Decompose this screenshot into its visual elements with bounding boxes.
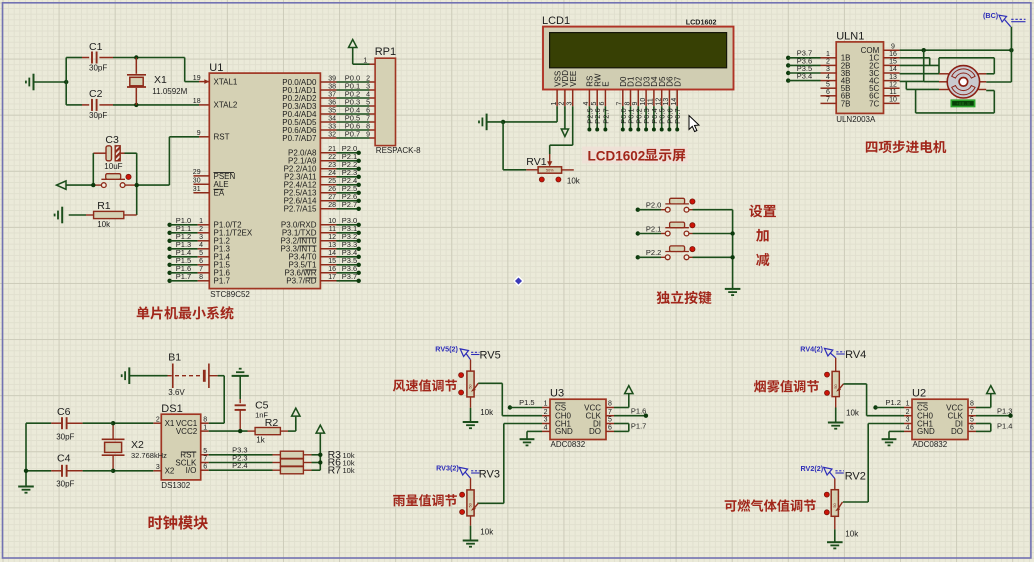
- svg-text:ULN1: ULN1: [836, 31, 864, 43]
- svg-text:14: 14: [328, 250, 336, 257]
- svg-text:1: 1: [551, 102, 558, 106]
- svg-text:C1: C1: [89, 41, 103, 53]
- svg-text:14: 14: [889, 66, 897, 73]
- svg-text:8: 8: [624, 102, 631, 106]
- svg-text:13: 13: [889, 74, 897, 81]
- svg-text:10k: 10k: [97, 220, 111, 229]
- svg-text:P2.2: P2.2: [646, 248, 661, 257]
- svg-text:P2.7: P2.7: [342, 200, 357, 209]
- svg-text:26: 26: [328, 186, 336, 193]
- svg-text:8: 8: [366, 123, 370, 130]
- svg-text:15: 15: [328, 258, 336, 265]
- svg-text:4: 4: [366, 91, 370, 98]
- svg-text:RESPACK-8: RESPACK-8: [376, 146, 421, 155]
- svg-text:B1: B1: [168, 351, 181, 363]
- svg-text:3: 3: [826, 66, 830, 73]
- svg-text:50: 50: [834, 384, 838, 388]
- svg-text:32: 32: [328, 131, 336, 138]
- svg-text:DS1: DS1: [161, 403, 182, 415]
- svg-text:28: 28: [328, 202, 336, 209]
- svg-text:4: 4: [906, 425, 910, 432]
- svg-text:R2: R2: [265, 417, 279, 429]
- svg-text:GND: GND: [555, 427, 573, 436]
- svg-text:31: 31: [193, 186, 201, 193]
- svg-text:10: 10: [328, 218, 336, 225]
- svg-text:P1.2: P1.2: [886, 398, 901, 407]
- svg-text:X1: X1: [165, 419, 175, 428]
- svg-text:12: 12: [328, 234, 336, 241]
- svg-text:1: 1: [544, 401, 548, 408]
- svg-text:7: 7: [608, 409, 612, 416]
- svg-text:8: 8: [199, 274, 203, 281]
- svg-text:3: 3: [544, 417, 548, 424]
- svg-text:13: 13: [328, 242, 336, 249]
- svg-text:2: 2: [906, 409, 910, 416]
- svg-text:30pF: 30pF: [56, 432, 74, 441]
- svg-text:10k: 10k: [480, 408, 494, 417]
- svg-text:E: E: [602, 81, 611, 86]
- svg-text:7: 7: [203, 456, 207, 463]
- svg-text:6: 6: [608, 425, 612, 432]
- svg-text:VCC2: VCC2: [176, 427, 198, 436]
- svg-text:5: 5: [366, 99, 370, 106]
- svg-text:5: 5: [970, 417, 974, 424]
- svg-text:P1.4: P1.4: [997, 422, 1012, 431]
- svg-text:8: 8: [608, 401, 612, 408]
- svg-text:P2.0: P2.0: [646, 201, 661, 210]
- svg-text:ADC0832: ADC0832: [913, 440, 948, 449]
- svg-text:RV4: RV4: [845, 349, 866, 361]
- svg-text:38: 38: [328, 83, 336, 90]
- svg-text:30pF: 30pF: [89, 111, 107, 120]
- svg-text:LCD1: LCD1: [542, 15, 570, 27]
- svg-text:1: 1: [906, 401, 910, 408]
- svg-text:1: 1: [363, 57, 367, 64]
- svg-text:9: 9: [891, 43, 895, 50]
- svg-text:39: 39: [328, 75, 336, 82]
- svg-text:2: 2: [559, 102, 566, 106]
- svg-text:P3.7: P3.7: [342, 272, 357, 281]
- svg-text:16: 16: [889, 51, 897, 58]
- svg-text:18: 18: [193, 98, 201, 105]
- svg-text:3: 3: [567, 102, 574, 106]
- svg-text:7: 7: [366, 115, 370, 122]
- svg-text:RV5: RV5: [480, 350, 501, 362]
- svg-text:11.0592M: 11.0592M: [152, 87, 187, 96]
- svg-text:3: 3: [156, 464, 160, 471]
- svg-text:12: 12: [889, 81, 897, 88]
- svg-text:C3: C3: [105, 134, 119, 146]
- svg-text:11: 11: [889, 89, 896, 96]
- svg-text:1: 1: [203, 424, 207, 431]
- svg-text:4: 4: [199, 242, 203, 249]
- svg-text:3: 3: [366, 83, 370, 90]
- svg-text:6: 6: [970, 425, 974, 432]
- svg-text:STC89C52: STC89C52: [210, 290, 250, 299]
- svg-text:DO: DO: [951, 427, 963, 436]
- svg-text:ADC0832: ADC0832: [551, 440, 586, 449]
- svg-text:RP1: RP1: [375, 46, 396, 58]
- svg-text:RV2: RV2: [845, 471, 866, 483]
- svg-text:2: 2: [826, 59, 830, 66]
- svg-text:2: 2: [544, 409, 548, 416]
- svg-text:17: 17: [328, 274, 336, 281]
- svg-text:1: 1: [199, 218, 203, 225]
- svg-text:10: 10: [889, 97, 897, 104]
- svg-text:32.768kHz: 32.768kHz: [131, 451, 167, 460]
- svg-text:P0.7: P0.7: [345, 129, 360, 138]
- svg-text:P3.4: P3.4: [797, 72, 812, 81]
- svg-text:+88.8: +88.8: [956, 101, 970, 107]
- svg-text:2: 2: [366, 75, 370, 82]
- svg-text:LCD1602: LCD1602: [588, 148, 646, 163]
- svg-text:10uF: 10uF: [104, 162, 122, 171]
- svg-text:9: 9: [197, 130, 201, 137]
- svg-text:6: 6: [199, 258, 203, 265]
- svg-text:VEE: VEE: [569, 71, 578, 87]
- svg-text:6: 6: [366, 107, 370, 114]
- svg-text:21: 21: [328, 146, 336, 153]
- svg-text:5: 5: [199, 250, 203, 257]
- svg-text:4: 4: [583, 102, 590, 106]
- svg-text:7: 7: [617, 102, 624, 106]
- svg-text:GND: GND: [917, 427, 935, 436]
- svg-text:8: 8: [970, 401, 974, 408]
- svg-text:P1.3: P1.3: [997, 406, 1012, 415]
- svg-text:U2: U2: [912, 388, 926, 400]
- svg-text:P2.7: P2.7: [601, 108, 610, 123]
- svg-text:3.6V: 3.6V: [168, 388, 185, 397]
- svg-text:P2.1: P2.1: [646, 224, 661, 233]
- svg-text:R7: R7: [328, 464, 342, 476]
- svg-text:30: 30: [193, 177, 201, 184]
- svg-text:7: 7: [199, 266, 203, 273]
- svg-text:50: 50: [833, 503, 837, 507]
- svg-text:7C: 7C: [869, 99, 879, 108]
- svg-text:EA: EA: [214, 189, 225, 198]
- svg-text:24: 24: [328, 170, 336, 177]
- svg-text:3: 3: [906, 417, 910, 424]
- svg-text:C6: C6: [57, 406, 71, 418]
- svg-text:2: 2: [199, 226, 203, 233]
- svg-text:RV3: RV3: [479, 468, 500, 480]
- svg-text:50: 50: [469, 503, 473, 507]
- svg-text:P2.4: P2.4: [232, 461, 247, 470]
- svg-text:25: 25: [328, 178, 336, 185]
- svg-text:P1.7: P1.7: [631, 422, 646, 431]
- svg-text:10k: 10k: [567, 177, 581, 186]
- svg-text:9: 9: [366, 131, 370, 138]
- svg-text:4: 4: [826, 74, 830, 81]
- svg-text:P2.7/A15: P2.7/A15: [284, 205, 317, 214]
- svg-text:11: 11: [648, 98, 655, 105]
- svg-text:37: 37: [328, 91, 336, 98]
- svg-text:RV2(2): RV2(2): [801, 464, 824, 473]
- svg-text:5: 5: [203, 448, 207, 455]
- svg-text:7B: 7B: [841, 99, 851, 108]
- svg-text:RV5(2): RV5(2): [435, 345, 458, 354]
- svg-text:10k: 10k: [846, 409, 860, 418]
- svg-text:DO: DO: [589, 427, 601, 436]
- svg-text:XTAL2: XTAL2: [214, 101, 238, 110]
- svg-text:XTAL1: XTAL1: [214, 77, 238, 86]
- svg-text:P1.6: P1.6: [631, 406, 646, 415]
- svg-text:36: 36: [328, 99, 336, 106]
- svg-text:8: 8: [203, 416, 207, 423]
- svg-text:DS1302: DS1302: [161, 481, 190, 490]
- svg-text:13: 13: [663, 98, 670, 106]
- svg-text:LCD1602: LCD1602: [686, 18, 717, 27]
- svg-text:7: 7: [970, 409, 974, 416]
- svg-text:35: 35: [328, 107, 336, 114]
- svg-text:U3: U3: [550, 388, 564, 400]
- svg-text:50: 50: [469, 384, 473, 388]
- svg-text:5: 5: [608, 417, 612, 424]
- svg-text:1: 1: [826, 51, 830, 58]
- svg-text:P0.7/AD7: P0.7/AD7: [282, 134, 317, 143]
- svg-text:2: 2: [156, 416, 160, 423]
- svg-text:P1.5: P1.5: [519, 398, 534, 407]
- svg-text:C2: C2: [89, 88, 103, 100]
- svg-text:P0.7: P0.7: [673, 108, 682, 123]
- svg-text:RV3(2): RV3(2): [436, 464, 459, 473]
- svg-text:50%: 50%: [546, 169, 554, 173]
- svg-text:15: 15: [889, 59, 897, 66]
- svg-text:3: 3: [199, 234, 203, 241]
- svg-text:I/O: I/O: [186, 466, 197, 475]
- svg-text:4: 4: [544, 425, 548, 432]
- svg-text:6: 6: [826, 89, 830, 96]
- svg-text:RV4(2): RV4(2): [800, 344, 823, 353]
- svg-text:X1: X1: [154, 74, 167, 86]
- svg-text:ULN2003A: ULN2003A: [836, 115, 876, 124]
- svg-text:5: 5: [591, 102, 598, 106]
- svg-text:P1.7: P1.7: [214, 277, 231, 286]
- svg-text:27: 27: [328, 194, 336, 201]
- svg-text:16: 16: [328, 266, 336, 273]
- svg-text:RV1: RV1: [526, 156, 546, 168]
- svg-text:22: 22: [328, 154, 336, 161]
- svg-text:23: 23: [328, 162, 336, 169]
- svg-text:10k: 10k: [845, 530, 859, 539]
- svg-text:D7: D7: [673, 76, 682, 87]
- svg-text:10: 10: [640, 98, 647, 106]
- svg-text:12: 12: [656, 98, 663, 106]
- svg-text:C4: C4: [57, 453, 71, 465]
- svg-text:29: 29: [193, 169, 201, 176]
- svg-text:X2: X2: [131, 439, 144, 451]
- svg-text:R1: R1: [97, 200, 111, 212]
- svg-text:X2: X2: [165, 467, 175, 476]
- svg-text:14: 14: [671, 98, 678, 106]
- svg-text:6: 6: [599, 102, 606, 106]
- svg-text:U1: U1: [209, 62, 223, 74]
- svg-text:9: 9: [632, 102, 639, 106]
- svg-text:(BC): (BC): [983, 11, 999, 20]
- svg-text:6: 6: [203, 463, 207, 470]
- svg-text:5: 5: [826, 81, 830, 88]
- svg-text:19: 19: [193, 75, 201, 82]
- svg-text:34: 34: [328, 115, 336, 122]
- svg-text:10k: 10k: [480, 528, 494, 537]
- svg-text:33: 33: [328, 123, 336, 130]
- svg-text:P1.7: P1.7: [176, 272, 191, 281]
- svg-text:11: 11: [329, 226, 336, 233]
- svg-text:30pF: 30pF: [89, 64, 107, 73]
- svg-text:10k: 10k: [343, 466, 355, 475]
- svg-text:RST: RST: [214, 133, 230, 142]
- svg-text:30pF: 30pF: [56, 480, 74, 489]
- svg-text:1k: 1k: [256, 435, 265, 444]
- svg-text:7: 7: [826, 97, 830, 104]
